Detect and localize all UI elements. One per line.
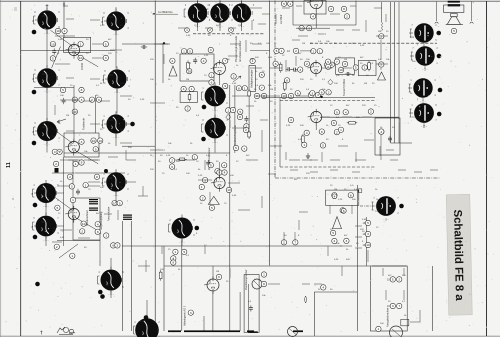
- wire: [321, 152, 323, 162]
- plus mark above Roe1: [46, 4, 49, 7]
- pilot dot: [437, 54, 442, 59]
- capacitor C65: [331, 120, 336, 125]
- svg-text:2: 2: [245, 128, 247, 132]
- resistor R82: [248, 89, 251, 98]
- tube Roe9 (top view): [106, 111, 125, 139]
- svg-text:100: 100: [306, 59, 310, 61]
- svg-text:2: 2: [328, 90, 330, 94]
- resistor R41: [308, 92, 313, 97]
- wire: [289, 159, 300, 161]
- wire: [84, 100, 92, 102]
- wire tube lead: [105, 78, 107, 80]
- wire V3b anode down: [315, 123, 317, 130]
- triode V1a (envelope): [65, 42, 79, 59]
- svg-text:3: 3: [299, 68, 301, 72]
- capacitor C73: [117, 200, 122, 205]
- capacitor C91: [79, 97, 84, 102]
- wire to Roe18: [409, 32, 413, 34]
- svg-text:8: 8: [321, 130, 323, 134]
- wire: [385, 290, 387, 300]
- resistor R67: [347, 122, 358, 125]
- pilot dot: [100, 294, 105, 299]
- svg-text:4: 4: [306, 131, 308, 135]
- wire: [298, 35, 308, 37]
- wire: [365, 20, 367, 32]
- svg-text:1M: 1M: [66, 115, 69, 117]
- svg-text:15: 15: [310, 79, 313, 81]
- wire: [270, 67, 282, 69]
- svg-text:2: 2: [398, 278, 400, 282]
- svg-text:50: 50: [160, 155, 163, 157]
- svg-text:1M: 1M: [270, 89, 273, 91]
- resistor R121: [365, 242, 370, 247]
- capacitor C86: [200, 196, 205, 201]
- svg-text:0,25: 0,25: [360, 45, 365, 47]
- svg-text:zur Bildröhre: zur Bildröhre: [158, 10, 173, 14]
- svg-text:5: 5: [355, 66, 357, 70]
- svg-text:10: 10: [366, 243, 370, 247]
- svg-text:12: 12: [58, 213, 61, 215]
- wire tube lower lead: [46, 30, 48, 68]
- svg-text:0,25: 0,25: [140, 99, 145, 101]
- svg-text:8: 8: [286, 78, 288, 82]
- resistor R47: [298, 67, 303, 72]
- resistor R82b: [226, 108, 231, 113]
- svg-text:6: 6: [275, 62, 277, 66]
- wire: [90, 19, 100, 21]
- wire: [66, 77, 74, 79]
- svg-text:7: 7: [58, 85, 60, 87]
- wire vertical x213: [212, 292, 214, 331]
- svg-text:0,1: 0,1: [186, 255, 190, 257]
- capacitor C42: [254, 93, 259, 98]
- wire tube lower lead: [110, 291, 112, 298]
- wire: [84, 159, 100, 161]
- tube Roe2 (top view): [106, 8, 125, 36]
- wire vertical x74 mid: [73, 85, 75, 141]
- svg-text:70: 70: [342, 213, 345, 215]
- svg-text:3: 3: [128, 71, 130, 73]
- svg-text:220: 220: [362, 105, 366, 107]
- wire vertical x314: [313, 292, 315, 336]
- wire: [107, 177, 112, 179]
- resistor R93: [72, 109, 77, 114]
- capacitor C1: [50, 56, 55, 61]
- svg-text:(: (: [417, 97, 418, 101]
- capacitor C49b: [259, 72, 264, 77]
- capacitor C90: [451, 28, 456, 33]
- capacitor C33: [344, 14, 349, 19]
- wire: [380, 68, 382, 70]
- svg-text:Helligkeitsregler: Helligkeitsregler: [250, 69, 254, 88]
- svg-text:4k7: 4k7: [298, 53, 302, 55]
- wire: [54, 105, 56, 115]
- svg-text:5: 5: [52, 57, 54, 61]
- svg-text:5: 5: [193, 220, 195, 222]
- resistor R113: [159, 270, 162, 281]
- svg-text:220: 220: [306, 173, 310, 175]
- terminal mark: [63, 3, 65, 6]
- svg-text:30: 30: [300, 59, 303, 61]
- svg-text:3: 3: [81, 98, 83, 102]
- wire: [382, 268, 384, 276]
- svg-text:3: 3: [105, 56, 107, 60]
- triode V3c (envelope): [307, 0, 322, 12]
- svg-text:5: 5: [62, 88, 64, 92]
- svg-text:1: 1: [281, 49, 283, 53]
- svg-text:25: 25: [88, 115, 91, 117]
- wire: [229, 268, 231, 278]
- svg-text:1M: 1M: [302, 43, 305, 45]
- svg-text:3: 3: [81, 140, 83, 144]
- wire diagonal V1a cathode: [52, 47, 61, 68]
- resistor R114: [188, 310, 193, 315]
- svg-text:220: 220: [150, 59, 154, 61]
- svg-text:5: 5: [33, 218, 35, 220]
- page top edge: [0, 0, 500, 2]
- svg-text:2k: 2k: [352, 75, 355, 77]
- diamond junction: [328, 79, 333, 85]
- svg-text:25: 25: [360, 63, 363, 65]
- svg-text:2: 2: [306, 62, 308, 66]
- svg-text:10k: 10k: [386, 59, 390, 61]
- wire: [302, 159, 312, 161]
- svg-text:30: 30: [86, 39, 89, 41]
- width control box: [180, 92, 197, 103]
- wire: [374, 7, 382, 9]
- tube Roe6 (top view): [37, 65, 57, 93]
- wire: [232, 127, 246, 129]
- wire vertical x230: [229, 85, 231, 331]
- wire vertical x366: [366, 217, 368, 266]
- capacitor C49d: [329, 62, 334, 67]
- svg-text:25: 25: [226, 281, 229, 283]
- wire: [422, 98, 424, 101]
- capacitor C71b: [70, 197, 75, 202]
- resistor R115: [261, 272, 266, 277]
- capacitor C16: [231, 74, 236, 79]
- svg-text:1: 1: [75, 162, 77, 166]
- svg-text:2: 2: [209, 28, 211, 32]
- audio output box: [358, 61, 376, 76]
- svg-text:10k: 10k: [326, 41, 330, 43]
- capacitor C53: [345, 72, 351, 76]
- wire: [419, 310, 421, 322]
- resistor R44: [274, 48, 279, 53]
- wire: [262, 13, 270, 15]
- wire: [282, 7, 290, 9]
- audio stage box: [73, 198, 100, 240]
- svg-text:4: 4: [54, 150, 56, 154]
- svg-text:10k: 10k: [168, 143, 172, 145]
- wire horizontal y146: [122, 145, 155, 147]
- svg-text:6: 6: [193, 235, 195, 237]
- svg-text:8: 8: [226, 88, 228, 90]
- svg-text:4: 4: [127, 131, 129, 133]
- resistor R72: [81, 221, 86, 226]
- wire: [178, 27, 188, 29]
- wire: [138, 265, 150, 267]
- svg-text:1: 1: [202, 88, 204, 90]
- wire: [126, 181, 136, 183]
- wire: [261, 140, 263, 152]
- wire tube lower lead: [45, 203, 47, 215]
- resistor R54: [368, 61, 371, 72]
- wire box right x356: [355, 1, 357, 26]
- capacitor C91b: [96, 97, 101, 102]
- wire box left x293: [292, 1, 294, 26]
- pin bracket: [103, 178, 105, 186]
- wire: [55, 63, 70, 65]
- svg-text:12: 12: [86, 53, 89, 55]
- wire: [424, 66, 426, 69]
- svg-text:0,25: 0,25: [166, 155, 171, 157]
- pin tick: [121, 278, 123, 282]
- svg-text:Tonteil 5,5MHz: Tonteil 5,5MHz: [342, 78, 346, 96]
- tube Roe11 (top view): [205, 115, 226, 144]
- wire vertical x95.7: [95, 95, 97, 133]
- wire: [292, 39, 300, 41]
- wire: [41, 221, 46, 223]
- resistor R49: [311, 49, 316, 54]
- wire: [160, 43, 163, 45]
- svg-text:1M: 1M: [378, 31, 381, 33]
- resistor R91b: [89, 97, 94, 102]
- loudspeaker jack box: [244, 275, 259, 333]
- wire tube lower lead: [197, 23, 199, 31]
- svg-text:0,25: 0,25: [198, 175, 203, 177]
- svg-text:10: 10: [98, 139, 102, 143]
- selenium rectifier column: [169, 66, 177, 76]
- svg-text:5: 5: [95, 147, 97, 151]
- svg-text:9: 9: [81, 161, 83, 165]
- svg-text:1: 1: [211, 73, 213, 77]
- capacitor C92: [62, 98, 66, 104]
- svg-text:2: 2: [127, 174, 129, 176]
- pin bracket: [202, 124, 204, 132]
- wire: [251, 20, 253, 30]
- pin tick: [251, 11, 253, 15]
- tube pin numbers: [33, 5, 438, 337]
- svg-text:5k: 5k: [352, 83, 355, 85]
- tube Roe20 (socket view): [409, 78, 433, 103]
- capacitor C10: [181, 49, 186, 54]
- pilot dot: [33, 203, 38, 208]
- tube Roe18 (socket view): [410, 23, 434, 48]
- tube Roe13 (top view): [106, 169, 126, 197]
- resistor R63: [320, 143, 325, 148]
- svg-text:8: 8: [266, 53, 268, 55]
- wire tube lower lead: [46, 141, 48, 153]
- wire tube top lead: [241, 1, 243, 4]
- svg-text:4k7: 4k7: [246, 155, 250, 157]
- phase discriminator triangle: [208, 196, 219, 204]
- capacitor C95: [57, 149, 62, 154]
- deflection box: [375, 118, 400, 155]
- svg-text:25: 25: [386, 31, 389, 33]
- svg-text:4: 4: [312, 15, 314, 19]
- svg-text:1k: 1k: [186, 155, 189, 157]
- resistor R2: [78, 55, 83, 60]
- svg-text:15: 15: [388, 301, 391, 303]
- page left scan edge: [0, 0, 2, 337]
- svg-text:100: 100: [380, 323, 384, 325]
- wire: [352, 29, 360, 31]
- svg-text:3: 3: [230, 28, 232, 32]
- pin bracket: [34, 16, 36, 24]
- svg-text:2: 2: [327, 65, 329, 69]
- wire: [300, 50, 312, 52]
- resistor R102: [233, 145, 238, 150]
- capacitor C115: [249, 305, 253, 311]
- pin bracket: [98, 276, 100, 284]
- wire tube lead: [35, 130, 37, 132]
- resistor R74c: [70, 253, 75, 258]
- wire vertical x63: [63, 157, 65, 246]
- svg-text:8: 8: [96, 175, 98, 179]
- resistor R11: [201, 58, 206, 63]
- svg-text:4: 4: [98, 272, 100, 274]
- capacitor C84e: [206, 160, 210, 166]
- svg-text:4: 4: [223, 163, 225, 167]
- capacitor C84c: [208, 163, 213, 168]
- svg-text:10: 10: [339, 68, 343, 72]
- svg-text:1k: 1k: [255, 71, 258, 73]
- resistor R32: [299, 26, 304, 31]
- AGC arrow: [57, 119, 66, 123]
- svg-text:2k: 2k: [318, 289, 321, 291]
- resistor R33: [341, 6, 346, 11]
- capacitor C49f: [326, 90, 331, 95]
- wire: [57, 185, 70, 187]
- pin tick: [56, 191, 58, 195]
- svg-text:1: 1: [58, 138, 60, 140]
- potentiometer arrow P1: [233, 76, 241, 82]
- svg-text:0,5: 0,5: [52, 198, 56, 200]
- pin tick: [57, 129, 59, 133]
- svg-text:5k: 5k: [168, 79, 171, 81]
- wire: [380, 135, 382, 160]
- svg-text:1k: 1k: [410, 93, 413, 95]
- wire tube lead: [104, 123, 106, 125]
- capacitor C41: [315, 92, 320, 97]
- capacitor C112: [182, 249, 187, 254]
- svg-text:5: 5: [235, 146, 237, 150]
- tube Roe12 (top view): [36, 180, 56, 209]
- tuner section border bottom: [391, 142, 413, 144]
- svg-text:1: 1: [303, 143, 305, 147]
- resistor R45: [293, 48, 298, 53]
- svg-text:3: 3: [232, 108, 234, 112]
- resistor R42: [261, 93, 266, 98]
- svg-text:5k: 5k: [100, 83, 103, 85]
- svg-text:15: 15: [70, 85, 73, 87]
- svg-text:15: 15: [176, 53, 179, 55]
- svg-text:8: 8: [58, 53, 60, 55]
- svg-text:0,05: 0,05: [232, 195, 237, 197]
- svg-text:10030: 10030: [80, 62, 84, 70]
- resistor R91: [72, 97, 77, 102]
- resistor R90: [60, 87, 65, 92]
- resistor R117: [340, 208, 345, 213]
- svg-text:2: 2: [158, 322, 160, 324]
- resistor R97: [53, 161, 58, 166]
- wire dashed heater line under tubes: [193, 33, 265, 35]
- tube Roe16 (top view): [101, 267, 122, 297]
- svg-text:7: 7: [411, 25, 413, 27]
- svg-text:50: 50: [366, 75, 369, 77]
- wire vertical x240: [239, 292, 241, 331]
- capacitor C90b: [79, 87, 84, 92]
- svg-text:2: 2: [64, 29, 66, 33]
- wire: [142, 186, 144, 196]
- svg-text:3: 3: [380, 130, 382, 134]
- svg-text:1: 1: [58, 70, 60, 72]
- wire: [60, 99, 78, 101]
- wire: [364, 139, 374, 141]
- svg-text:5k: 5k: [254, 89, 257, 91]
- wire: [42, 126, 47, 128]
- svg-text:9: 9: [57, 233, 59, 235]
- triode V3b (envelope): [308, 109, 322, 126]
- svg-text:7: 7: [435, 120, 437, 122]
- wire: [56, 192, 64, 194]
- svg-text:1M: 1M: [334, 189, 337, 191]
- svg-text:3: 3: [346, 239, 348, 243]
- svg-text:5: 5: [57, 206, 59, 210]
- wire: [330, 169, 338, 171]
- svg-text:70: 70: [255, 79, 258, 81]
- junction x164: [163, 42, 165, 44]
- capacitor C75: [67, 174, 72, 179]
- wire: [154, 43, 168, 45]
- junction: [320, 96, 322, 98]
- svg-text:2: 2: [56, 245, 58, 249]
- pin bracket: [33, 222, 35, 230]
- wire: [423, 43, 425, 46]
- tuner section border outer: [390, 2, 392, 143]
- wire: [246, 105, 254, 107]
- wire: [228, 182, 240, 184]
- wire: [115, 7, 117, 11]
- wire vertical x204: [203, 316, 205, 331]
- wire: [108, 119, 113, 121]
- capacitor C110: [171, 260, 176, 265]
- wire: [145, 260, 147, 272]
- tube Roe8 (top view): [37, 118, 57, 147]
- svg-text:1: 1: [105, 234, 107, 238]
- svg-text:8: 8: [342, 139, 344, 141]
- capacitor C151: [229, 28, 234, 33]
- svg-text:100: 100: [52, 83, 56, 85]
- capacitor C51: [342, 61, 347, 66]
- wire vertical x432: [432, 266, 434, 331]
- resistor R86: [209, 205, 214, 210]
- wire: [228, 55, 238, 57]
- tube Roe4 (top view): [210, 0, 229, 28]
- svg-text:25: 25: [100, 129, 103, 131]
- wire: [296, 5, 302, 7]
- ratio detector box: [336, 58, 355, 74]
- wire horizontal bus y246: [122, 245, 342, 247]
- resistor R64: [334, 110, 339, 115]
- capacitor C61: [302, 142, 307, 147]
- wire diagonal to V1c grid: [50, 194, 73, 211]
- svg-text:4: 4: [434, 95, 436, 97]
- wire: [60, 229, 72, 231]
- wire video out: [296, 27, 330, 29]
- svg-text:Ablenkgerät AG 1: Ablenkgerät AG 1: [183, 305, 187, 326]
